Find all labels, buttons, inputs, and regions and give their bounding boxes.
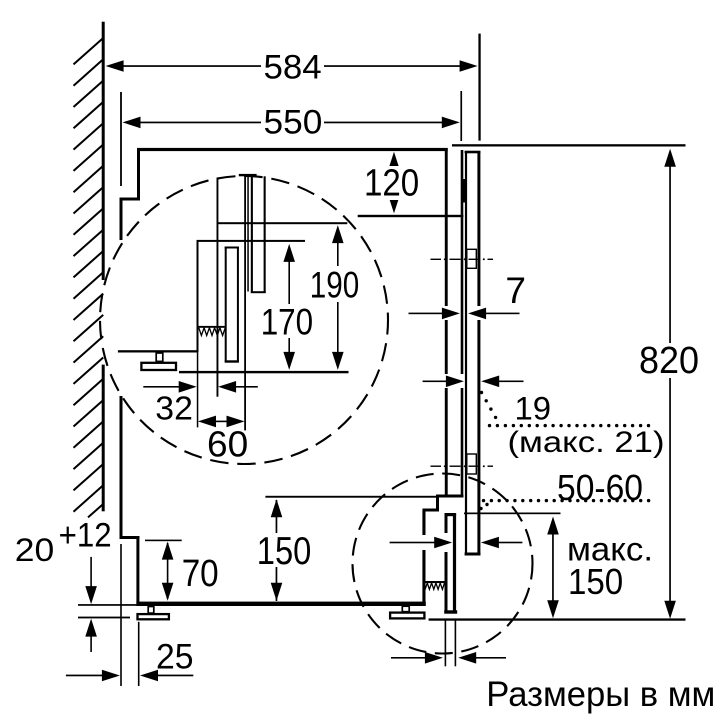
svg-text:70: 70: [182, 553, 219, 595]
svg-text:19: 19: [515, 390, 552, 426]
svg-text:150: 150: [257, 530, 312, 573]
svg-text:820: 820: [639, 340, 699, 382]
svg-text:20: 20: [15, 531, 54, 568]
svg-text:150: 150: [568, 561, 623, 602]
svg-text:170: 170: [261, 302, 313, 343]
svg-text:+12: +12: [59, 516, 112, 554]
svg-text:32: 32: [155, 390, 193, 427]
svg-text:7: 7: [505, 270, 526, 311]
svg-text:550: 550: [264, 104, 323, 142]
svg-text:190: 190: [310, 264, 360, 305]
svg-text:(макс. 21): (макс. 21): [508, 426, 665, 459]
svg-text:60: 60: [207, 423, 248, 464]
svg-text:25: 25: [156, 638, 194, 677]
svg-text:Размеры в мм: Размеры в мм: [486, 674, 715, 714]
svg-text:584: 584: [264, 48, 322, 86]
svg-text:120: 120: [364, 163, 419, 205]
svg-text:50-60: 50-60: [557, 467, 643, 508]
